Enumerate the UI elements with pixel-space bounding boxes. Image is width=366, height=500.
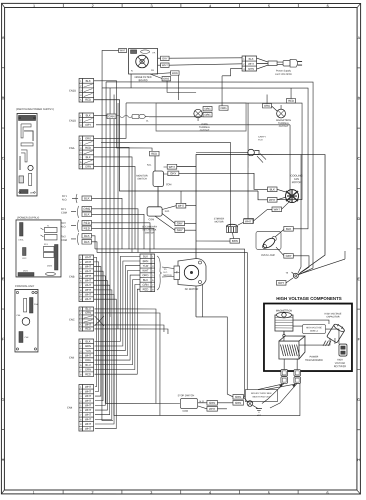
svg-text:GRN: GRN	[142, 283, 148, 287]
svg-text:OVEN LAMP: OVEN LAMP	[261, 254, 275, 257]
svg-text:RED: RED	[85, 327, 91, 331]
svg-text:BLU: BLU	[85, 363, 90, 367]
svg-text:WHT: WHT	[85, 255, 91, 259]
svg-text:CONTROL UNIT: CONTROL UNIT	[15, 284, 35, 288]
svg-text:ORG: ORG	[220, 106, 226, 110]
svg-text:WHT: WHT	[85, 323, 91, 327]
svg-text:ORG: ORG	[163, 77, 169, 81]
svg-text:TO: TO	[163, 269, 166, 271]
svg-text:WHT: WHT	[85, 260, 91, 264]
svg-text:N.O.: N.O.	[61, 225, 66, 228]
svg-text:RED: RED	[84, 221, 91, 225]
svg-text:G: G	[2, 398, 5, 402]
svg-text:WHT: WHT	[85, 389, 91, 393]
svg-text:CNC: CNC	[69, 317, 75, 321]
svg-text:COM: COM	[61, 239, 67, 242]
svg-text:N.O.: N.O.	[165, 210, 170, 213]
svg-text:RED: RED	[288, 99, 294, 103]
svg-text:G: G	[357, 398, 360, 402]
svg-text:3: 3	[150, 491, 152, 495]
svg-text:GRN: GRN	[30, 192, 35, 194]
svg-text:GRN: GRN	[85, 368, 91, 372]
svg-text:CUTOUT: CUTOUT	[279, 126, 289, 128]
svg-text:RED: RED	[84, 226, 91, 230]
svg-text:WHT: WHT	[178, 204, 185, 208]
svg-text:ORG: ORG	[83, 207, 91, 211]
svg-text:ORG: ORG	[204, 107, 210, 111]
svg-text:YLW: YLW	[143, 264, 149, 268]
svg-text:THERMAL: THERMAL	[278, 122, 290, 125]
svg-text:ORG: ORG	[85, 136, 91, 140]
svg-text:6: 6	[327, 4, 329, 8]
svg-text:COM: COM	[166, 183, 172, 186]
svg-text:BLK: BLK	[84, 212, 90, 216]
svg-text:WHT: WHT	[120, 48, 126, 52]
svg-text:DC MOTOR: DC MOTOR	[185, 288, 199, 291]
svg-text:COM: COM	[182, 410, 188, 413]
svg-text:GRN: GRN	[209, 401, 215, 405]
svg-text:WHT: WHT	[85, 417, 91, 421]
svg-text:MOLEX THICK SIDE: MOLEX THICK SIDE	[251, 393, 272, 395]
svg-text:WHT: WHT	[85, 297, 91, 301]
svg-text:THERMAL: THERMAL	[199, 126, 211, 129]
svg-text:WHT: WHT	[162, 63, 168, 67]
svg-text:WHT: WHT	[85, 427, 91, 431]
svg-text:COM: COM	[149, 218, 155, 221]
svg-text:TCO: TCO	[258, 140, 263, 142]
svg-text:WIRE-A: WIRE-A	[310, 330, 318, 333]
svg-text:RED: RED	[151, 152, 157, 156]
svg-text:WHT: WHT	[85, 394, 91, 398]
svg-text:WHT: WHT	[85, 265, 91, 269]
svg-text:WHT: WHT	[85, 279, 91, 283]
svg-text:HIGH VOLTAGE COMPONENTS: HIGH VOLTAGE COMPONENTS	[276, 296, 342, 301]
svg-text:COM: COM	[61, 211, 67, 214]
svg-text:STOP SWITCH: STOP SWITCH	[178, 394, 195, 397]
svg-text:WHT: WHT	[85, 288, 91, 292]
svg-text:HIGH VOLTAGE: HIGH VOLTAGE	[325, 313, 342, 316]
svg-text:D: D	[2, 217, 5, 221]
svg-text:WHT: WHT	[85, 274, 91, 278]
svg-text:GRN: GRN	[235, 395, 241, 399]
svg-text:ORG: ORG	[85, 358, 91, 362]
svg-text:WHT: WHT	[269, 198, 276, 202]
svg-text:CUTOUT: CUTOUT	[200, 130, 210, 132]
svg-text:RECTIFIER: RECTIFIER	[334, 366, 346, 368]
svg-text:C: C	[2, 157, 5, 161]
svg-text:WHT: WHT	[245, 219, 252, 223]
svg-text:BLK: BLK	[86, 339, 91, 343]
svg-text:WHT: WHT	[142, 268, 148, 272]
svg-text:RED: RED	[85, 98, 91, 102]
svg-text:WHT: WHT	[85, 353, 91, 357]
svg-text:TRANSFORMER: TRANSFORMER	[305, 359, 323, 362]
svg-text:WHT: WHT	[85, 283, 91, 287]
svg-text:WHT: WHT	[85, 408, 91, 412]
svg-text:GRY: GRY	[177, 228, 183, 232]
svg-text:BLK: BLK	[86, 113, 91, 117]
svg-text:BLK: BLK	[84, 240, 90, 244]
svg-text:BLK: BLK	[249, 57, 254, 61]
svg-text:WHT: WHT	[85, 292, 91, 296]
svg-text:ORG: ORG	[204, 113, 210, 117]
svg-text:4: 4	[209, 491, 211, 495]
svg-text:WHT: WHT	[169, 165, 176, 169]
svg-text:WHT: WHT	[274, 207, 281, 211]
svg-text:GRN: GRN	[235, 401, 241, 405]
svg-text:GRY: GRY	[278, 281, 284, 285]
svg-text:BLU: BLU	[143, 278, 148, 282]
svg-text:WHT: WHT	[248, 62, 254, 66]
svg-text:CN-B: CN-B	[47, 265, 53, 267]
svg-text:WHT: WHT	[85, 269, 91, 273]
svg-text:CAVITY: CAVITY	[258, 136, 266, 139]
svg-text:GRY: GRY	[286, 254, 292, 258]
svg-text:WHT: WHT	[85, 422, 91, 426]
svg-text:(SWITCHING POWER SUPPLY): (SWITCHING POWER SUPPLY)	[16, 107, 54, 111]
svg-text:SWITCH: SWITCH	[137, 177, 147, 180]
svg-text:CN2D: CN2D	[69, 88, 76, 92]
svg-text:CN4: CN4	[67, 405, 73, 409]
svg-text:CN6: CN6	[69, 355, 75, 359]
svg-text:BRN: BRN	[232, 239, 238, 243]
svg-text:WHT: WHT	[85, 403, 91, 407]
svg-text:WHT: WHT	[85, 413, 91, 417]
svg-text:GRY: GRY	[170, 171, 176, 175]
svg-text:N.O.: N.O.	[62, 198, 67, 201]
svg-text:CAPACITOR: CAPACITOR	[326, 316, 340, 319]
svg-text:BLK: BLK	[286, 227, 291, 231]
svg-text:BRN: BRN	[172, 71, 178, 75]
svg-text:SWITCH: SWITCH	[145, 231, 155, 234]
svg-text:GRN: GRN	[85, 165, 91, 169]
svg-text:MOTOR: MOTOR	[292, 180, 302, 184]
svg-text:2: 2	[91, 491, 93, 495]
svg-text:1: 1	[33, 4, 35, 8]
svg-text:GRY: GRY	[177, 221, 183, 225]
svg-text:BLK: BLK	[86, 79, 91, 83]
svg-text:C: C	[357, 157, 360, 161]
svg-text:GRN: GRN	[108, 114, 114, 118]
svg-text:BLK: BLK	[143, 254, 148, 258]
svg-text:MOTOR: MOTOR	[215, 221, 224, 224]
svg-text:D.C.: D.C.	[163, 272, 168, 274]
svg-text:BRN: BRN	[85, 344, 91, 348]
svg-text:N.C.: N.C.	[147, 164, 152, 167]
svg-text:BLK: BLK	[84, 196, 90, 200]
svg-text:5: 5	[268, 491, 270, 495]
svg-text:BLK: BLK	[84, 234, 90, 238]
svg-text:cord 120v 60Hz: cord 120v 60Hz	[275, 73, 293, 76]
svg-text:BLU: BLU	[85, 307, 90, 311]
svg-text:H: H	[2, 458, 5, 462]
svg-text:ORG: ORG	[142, 273, 148, 277]
svg-text:(POWER SUPPLY): (POWER SUPPLY)	[17, 215, 39, 219]
svg-text:CN1D: CN1D	[69, 118, 76, 122]
svg-text:CNA: CNA	[69, 146, 75, 150]
svg-text:VOLTAGE: VOLTAGE	[335, 362, 346, 365]
svg-text:ORG: ORG	[264, 104, 270, 108]
svg-text:MTG: MTG	[257, 415, 262, 417]
svg-text:MUST FACE OUT: MUST FACE OUT	[253, 396, 271, 399]
svg-text:2: 2	[92, 4, 94, 8]
svg-text:H: H	[357, 458, 360, 462]
svg-text:GRY: GRY	[85, 123, 91, 127]
svg-text:3: 3	[150, 4, 152, 8]
svg-text:YLW: YLW	[85, 349, 91, 353]
svg-text:BLK: BLK	[270, 187, 275, 191]
svg-text:BLK: BLK	[86, 155, 91, 159]
svg-text:POWER: POWER	[310, 357, 319, 359]
svg-text:6: 6	[326, 491, 328, 495]
svg-text:WHT: WHT	[85, 385, 91, 389]
svg-text:CN-D: CN-D	[23, 270, 29, 272]
svg-text:WHT: WHT	[209, 407, 216, 411]
svg-text:HIGH VOLTAGE: HIGH VOLTAGE	[306, 326, 323, 329]
svg-text:4: 4	[209, 4, 211, 8]
svg-text:CNB: CNB	[69, 274, 75, 278]
svg-text:MAGNETRON: MAGNETRON	[276, 119, 291, 122]
svg-text:5: 5	[268, 4, 270, 8]
svg-text:D: D	[357, 217, 360, 221]
svg-text:RED: RED	[85, 146, 91, 150]
svg-text:GRN: GRN	[85, 311, 91, 315]
svg-text:RED: RED	[143, 287, 149, 291]
svg-text:WHT: WHT	[85, 399, 91, 403]
svg-text:CN-A: CN-A	[19, 238, 25, 241]
svg-text:GRY: GRY	[162, 56, 168, 60]
svg-text:HIGH: HIGH	[337, 360, 343, 362]
svg-text:BRN: BRN	[143, 259, 149, 263]
svg-text:RED: RED	[85, 372, 91, 376]
svg-text:GRN: GRN	[248, 67, 254, 71]
svg-text:1: 1	[33, 491, 35, 495]
svg-text:OVEN: OVEN	[201, 124, 208, 126]
